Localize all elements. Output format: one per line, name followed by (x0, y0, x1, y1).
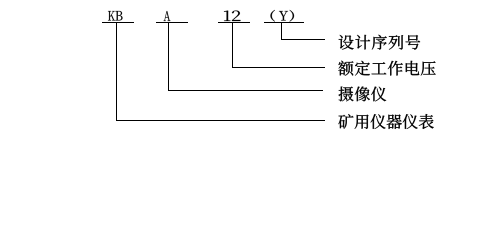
label: 矿用仪器仪表 (338, 114, 433, 129)
wire: horizontal leader to label "摄像仪" (168, 90, 323, 91)
label: 额定工作电压 (338, 61, 435, 76)
wire: vertical leader from "KB" down to 矿用仪器仪表 row (116, 22, 117, 121)
wire: horizontal leader to label "设计序列号" (281, 39, 325, 40)
text: model code segment "KB" (108, 11, 122, 21)
wire: horizontal leader to label "额定工作电压" (232, 67, 325, 68)
label: 设计序列号 (339, 35, 420, 50)
wire: underline under "12" (218, 22, 250, 23)
wire: underline under "A" (156, 22, 188, 23)
text: model code segment "12" (224, 11, 240, 21)
label: 摄像仪 (339, 87, 387, 102)
text: model code segment "(Y)" (271, 10, 294, 21)
text: model code segment "A" (164, 11, 171, 21)
wire: underline under "KB" (102, 22, 134, 23)
wire: vertical leader from "12" down to 额定工作电压 row (232, 22, 233, 68)
wire: vertical leader from "(Y)" down to 设计序列号 row (281, 22, 282, 40)
wire: horizontal leader to label "矿用仪器仪表" (116, 120, 325, 121)
wire: vertical leader from "A" down to 摄像仪 row (168, 22, 169, 91)
wire: underline under "(Y)" (264, 22, 304, 23)
